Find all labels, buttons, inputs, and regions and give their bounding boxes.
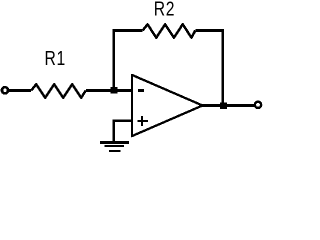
resistor R2	[143, 24, 196, 37]
node A (inverting input junction)	[111, 87, 118, 94]
wire R1 to inverting input	[86, 89, 132, 92]
output terminal	[255, 102, 261, 108]
op-amp U1	[132, 75, 203, 136]
op-amp non-inverting pin mark (+)	[138, 116, 149, 126]
wire non-inverting input to ground	[114, 121, 132, 142]
ground	[100, 141, 129, 144]
node B (output junction)	[220, 102, 227, 109]
input terminal	[2, 87, 8, 93]
svg-text:R2: R2	[154, 0, 175, 20]
wire output	[203, 104, 256, 107]
op-amp inverting pin mark (-)	[138, 89, 144, 92]
wire feedback top left	[113, 29, 143, 32]
wire feedback left vertical	[113, 31, 115, 91]
svg-text:R1: R1	[45, 47, 66, 69]
wire feedback right vertical	[222, 29, 224, 105]
wire feedback top right	[195, 29, 224, 32]
resistor R1	[31, 84, 86, 97]
wire input to R1	[8, 89, 31, 92]
